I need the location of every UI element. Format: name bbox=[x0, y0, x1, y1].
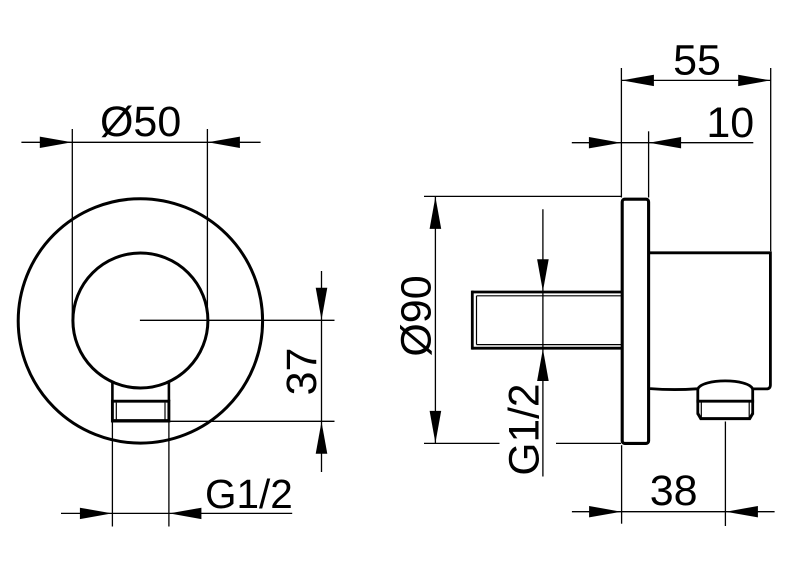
svg-text:G1/2: G1/2 bbox=[205, 471, 293, 517]
inlet stub thread OD bottom bbox=[472, 347, 622, 350]
dim 55: left extension line bbox=[620, 68, 622, 198]
outlet neck left side bbox=[111, 381, 114, 401]
svg-text:38: 38 bbox=[650, 467, 698, 515]
svg-text:10: 10 bbox=[706, 99, 754, 147]
outlet thread root line right bbox=[164, 403, 166, 420]
inlet stub thread root top bbox=[477, 295, 623, 297]
outlet shoulder line bbox=[696, 400, 754, 403]
body bottom line (left of outlet) bbox=[650, 387, 697, 391]
dim Ø90: bottom arrow bbox=[430, 411, 442, 443]
dim Ø50: right extension line bbox=[206, 129, 208, 318]
dim Ø50: left extension line bbox=[71, 129, 73, 318]
dim G1/2 front: right arrow bbox=[169, 508, 201, 519]
dim Ø50: right arrow bbox=[208, 137, 240, 148]
dim Ø50: left arrow bbox=[40, 137, 72, 148]
outlet thread block bbox=[112, 401, 168, 421]
dim G1/2 front: right extension line bbox=[168, 422, 170, 527]
inlet stub chamfer edge bbox=[476, 296, 478, 345]
outlet thread root right bbox=[748, 403, 750, 418]
dim G1/2 side: dimension line bbox=[542, 209, 544, 476]
outlet collar left side bbox=[696, 388, 699, 415]
dim G1/2 front: dimension line bbox=[61, 512, 292, 514]
dim Ø90: top arrow bbox=[430, 197, 442, 229]
svg-text:Ø90: Ø90 bbox=[392, 275, 440, 356]
svg-text:Ø50: Ø50 bbox=[100, 98, 181, 146]
dim 55: left arrow bbox=[622, 75, 654, 86]
dim 55: right extension line bbox=[770, 68, 772, 251]
dim 37: bottom arrow bbox=[316, 422, 328, 454]
outlet neck right side bbox=[168, 381, 171, 401]
dim 38: right extension line (outlet centreline) bbox=[724, 422, 726, 527]
outlet bottom with chamfers bbox=[698, 414, 753, 419]
inlet stub end cap bbox=[471, 291, 474, 350]
dim 10: left arrow bbox=[589, 137, 621, 148]
inlet stub thread OD top bbox=[472, 291, 622, 294]
dim G1/2 side: top arrow bbox=[537, 259, 549, 291]
dim 37: top extension line (from circle centre) bbox=[140, 319, 335, 321]
dim 37: bottom extension line bbox=[169, 420, 335, 422]
svg-text:G1/2: G1/2 bbox=[502, 383, 549, 475]
outlet thread bottom thick line bbox=[113, 419, 168, 422]
outlet thread root left bbox=[700, 403, 702, 418]
svg-text:37: 37 bbox=[278, 348, 326, 396]
dim 38: right arrow bbox=[726, 506, 758, 517]
dim 55: right arrow bbox=[738, 75, 770, 86]
dim Ø90: top extension line bbox=[424, 195, 621, 197]
dim Ø50: dimension line bbox=[21, 141, 260, 143]
inner circle (body Ø50) bbox=[73, 253, 208, 388]
dim 38: dimension line bbox=[572, 511, 775, 513]
dim 38: left arrow bbox=[589, 506, 621, 517]
dim 37: top arrow bbox=[316, 288, 328, 320]
outlet collar right side bbox=[751, 388, 754, 415]
dim Ø90: dimension line bbox=[434, 196, 436, 443]
inlet stub thread root bottom bbox=[477, 344, 623, 346]
wall flange plate bbox=[622, 199, 648, 443]
dim G1/2 front: left extension line bbox=[111, 422, 113, 527]
dim 10: dimension line bbox=[572, 142, 754, 144]
outlet dome bbox=[698, 381, 753, 389]
dim Ø90: bottom extension line (broken by text) bbox=[424, 442, 500, 444]
outer circle (wall plate Ø90) bbox=[18, 199, 262, 443]
dim 10: right arrow bbox=[649, 137, 681, 148]
dim 38: left extension line (below flange) bbox=[621, 445, 623, 524]
dim 10: extension line bbox=[648, 131, 650, 197]
dim G1/2 side: bottom arrow bbox=[537, 349, 549, 381]
svg-text:55: 55 bbox=[673, 36, 721, 84]
dim 55: dimension line bbox=[621, 79, 770, 81]
body outline (top, right side, bottom-right) bbox=[649, 253, 771, 389]
dim G1/2 front: left arrow bbox=[80, 508, 112, 519]
dim 37: dimension line bbox=[321, 271, 323, 472]
outlet thread root line left bbox=[115, 403, 117, 420]
